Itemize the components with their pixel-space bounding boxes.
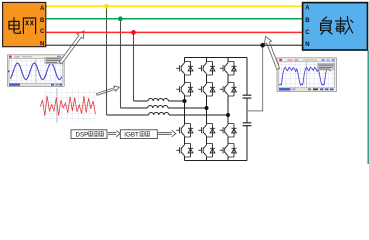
wire phase line A (yellow)	[46, 5, 303, 7]
IGBT Q9 with anti-parallel diode D9 (leg 3, row 3)	[220, 124, 237, 138]
svg-text:C: C	[40, 29, 45, 35]
wire L2 to leg2 midpoint	[168, 107, 207, 109]
IGBT Q6 with anti-parallel diode D6 (leg 3, row 2)	[220, 83, 237, 97]
svg-text:B: B	[305, 18, 310, 24]
oscilloscope window SCOPE1 (grid voltage sine)	[8, 55, 65, 87]
IGBT Q1 with anti-parallel diode D1 (leg 1, row 1)	[176, 62, 193, 76]
IGBT Q2 with anti-parallel diode D2 (leg 2, row 1)	[198, 62, 215, 76]
arrow CT2 (sensing arrow from scope2 to neutral tap)	[264, 36, 279, 69]
node tap B	[118, 16, 123, 21]
inductor L2	[148, 105, 168, 108]
wire leg2 vertical segments	[206, 58, 208, 161]
chart SCOPE3 (red harmonic current reference)	[40, 88, 96, 123]
capacitor C2 (lower DC-link)	[243, 123, 252, 126]
IGBT Q10 with anti-parallel diode D10 (leg 1, row 4)	[176, 144, 193, 158]
wire phase-A branch to leg3	[107, 114, 149, 116]
junction leg3 midpoint node	[226, 113, 230, 117]
block grid source box 电网	[3, 2, 46, 47]
svg-text:IGBT: IGBT	[124, 131, 139, 138]
wire L3 to leg3 midpoint	[169, 114, 228, 116]
arrow REF (harmonic reference into controller taps)	[97, 86, 120, 95]
wire phase-A tap drop	[106, 6, 108, 115]
junction leg2 midpoint node	[205, 106, 209, 110]
junction leg1 midpoint node	[183, 99, 187, 103]
wire DC negative rail	[185, 160, 248, 162]
label 控制器 (controller) glyphs	[89, 131, 93, 136]
IGBT Q4 with anti-parallel diode D4 (leg 1, row 2)	[176, 83, 193, 97]
oscilloscope window SCOPE2 (distorted load current)	[277, 58, 337, 92]
wire phase-C branch to leg1	[134, 100, 149, 102]
svg-text:B: B	[40, 18, 45, 24]
label 驱动 (drive) glyphs	[140, 131, 144, 136]
block DSP controller box	[71, 130, 107, 139]
block IGBT driver box	[120, 130, 157, 139]
svg-text:A: A	[40, 6, 45, 12]
IGBT Q3 with anti-parallel diode D3 (leg 3, row 1)	[220, 62, 237, 76]
wire phase-C tap drop	[133, 32, 135, 101]
wire neutral link from capacitor midpoint to N line	[247, 45, 263, 111]
node tap C	[131, 30, 136, 35]
wire leg1 vertical segments	[184, 58, 186, 161]
wire phase line B (green)	[46, 18, 303, 20]
wire phase-B branch to leg2	[121, 107, 148, 109]
node tap A	[104, 4, 109, 9]
svg-text:C: C	[305, 30, 310, 36]
svg-text:A: A	[305, 6, 310, 12]
border slide right edge line	[367, 51, 369, 165]
svg-text:N: N	[40, 42, 44, 48]
wire L1 to leg1 midpoint	[168, 100, 184, 102]
arrow CT1 (sensing arrow from scope1 to grid lines)	[59, 31, 84, 64]
arrow driver to IGBT gates	[158, 130, 176, 137]
wire phase-B tap drop	[120, 19, 122, 108]
wire leg3 vertical segments	[227, 58, 229, 161]
IGBT Q7 with anti-parallel diode D7 (leg 1, row 3)	[176, 124, 193, 138]
svg-text:DSP: DSP	[76, 131, 89, 138]
inductor L1	[148, 98, 168, 101]
IGBT Q8 with anti-parallel diode D8 (leg 2, row 3)	[198, 124, 215, 138]
wire DC bus vertical	[246, 58, 248, 161]
capacitor C1 (upper DC-link)	[243, 95, 252, 98]
inductor L3	[149, 112, 169, 115]
IGBT Q11 with anti-parallel diode D11 (leg 2, row 4)	[198, 144, 215, 158]
svg-text:N: N	[305, 42, 309, 48]
IGBT Q5 with anti-parallel diode D5 (leg 2, row 2)	[198, 83, 215, 97]
wire neutral line N (dark)	[46, 44, 303, 46]
wire DC positive rail	[185, 57, 248, 59]
wire phase line C (red)	[46, 31, 303, 33]
block load box 负载	[303, 3, 368, 50]
arrow DSP to IGBT-driver	[108, 130, 120, 136]
node tap N (neutral junction)	[260, 43, 265, 48]
IGBT Q12 with anti-parallel diode D12 (leg 3, row 4)	[220, 144, 237, 158]
